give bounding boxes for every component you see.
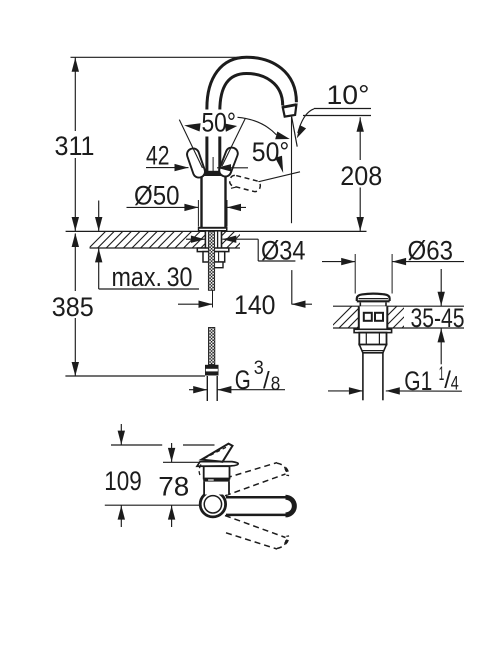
svg-text:385: 385 [52,292,94,322]
svg-text:35-45: 35-45 [411,303,465,333]
svg-text:208: 208 [340,161,382,191]
svg-text:max. 30: max. 30 [112,262,193,292]
svg-text:140: 140 [234,290,276,320]
svg-text:42: 42 [146,141,170,171]
svg-text:50°: 50° [252,137,289,167]
svg-text:78: 78 [158,471,189,501]
svg-text:Ø63: Ø63 [408,235,454,265]
svg-text:G1: G1 [404,366,432,396]
svg-text:50°: 50° [202,107,237,137]
svg-text:311: 311 [55,131,95,161]
svg-text:Ø34: Ø34 [261,236,306,266]
svg-text:G: G [235,365,251,395]
svg-text:4: 4 [451,374,459,395]
svg-text:8: 8 [271,374,281,395]
svg-text:Ø50: Ø50 [134,181,180,211]
svg-text:109: 109 [104,466,142,496]
svg-text:/: / [263,368,270,395]
svg-text:10°: 10° [327,80,370,110]
